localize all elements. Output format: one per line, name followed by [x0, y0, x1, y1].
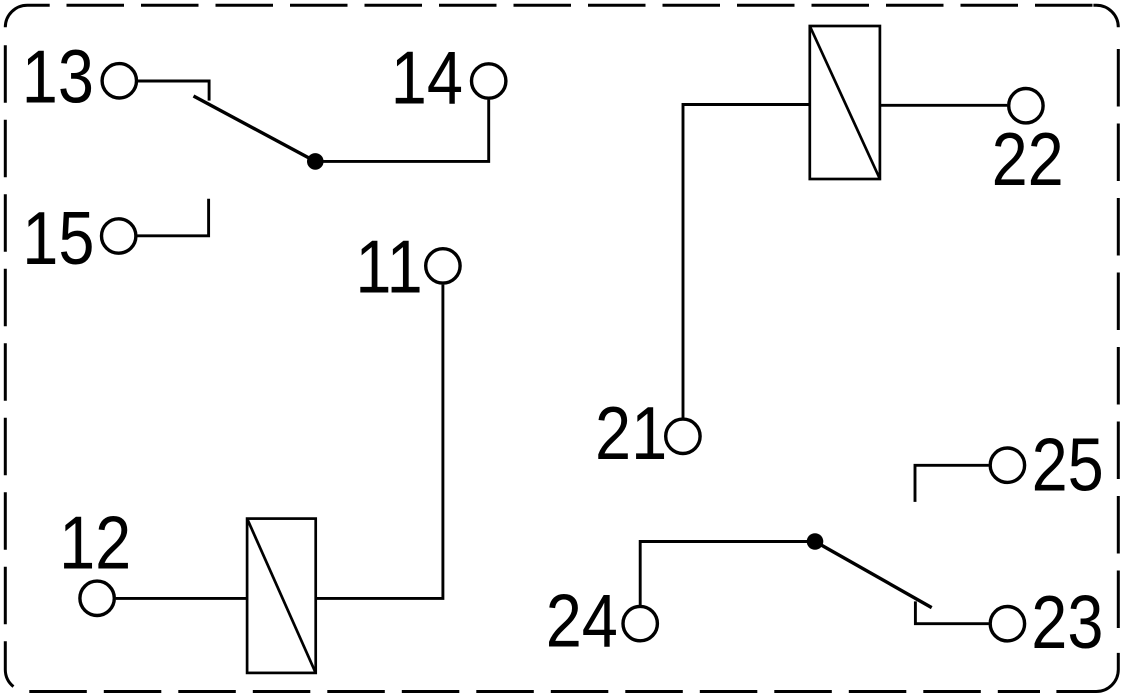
svg-text:12: 12: [59, 501, 131, 584]
svg-text:22: 22: [992, 117, 1064, 200]
wire 12 to coil K1: [116, 597, 247, 600]
wire 25 stub: [915, 465, 989, 502]
terminal 13: [102, 64, 136, 98]
svg-text:11: 11: [355, 225, 422, 308]
wire coil K2 to 21: [683, 105, 810, 418]
wire S1 dot to 14: [315, 100, 488, 162]
switch S2 arm: [815, 542, 932, 608]
border corner bottom-right: [1056, 653, 1118, 692]
dashed outline border: bottom edge: [29, 690, 1040, 693]
junction dot S1: [307, 153, 324, 170]
svg-text:14: 14: [391, 36, 463, 119]
coil K2: [810, 26, 880, 179]
terminal 15: [102, 219, 136, 253]
coil K1 diagonal: [247, 519, 316, 673]
svg-text:25: 25: [1032, 423, 1104, 506]
border corner top-right: [1093, 5, 1118, 27]
svg-text:24: 24: [546, 579, 618, 662]
terminal 24: [623, 606, 657, 640]
wire 15 stub: [137, 199, 208, 236]
terminal 11: [426, 249, 460, 283]
coil K1: [247, 519, 316, 673]
border corner top-left: [5, 5, 49, 27]
terminal 12: [80, 581, 114, 615]
switch S1 arm: [194, 96, 316, 161]
wire fixed contact to 23: [915, 601, 988, 623]
terminal 25: [990, 448, 1024, 482]
coil K2 diagonal: [810, 26, 880, 179]
terminal 22: [1009, 89, 1043, 123]
terminal 21: [666, 419, 700, 453]
border corner bottom-left: [5, 641, 13, 686]
dashed outline border: right edge: [1117, 49, 1120, 635]
wire coil K2 to 22: [880, 104, 1007, 107]
wire 24 to S2 dot: [640, 542, 815, 606]
terminal 14: [472, 64, 506, 98]
terminal 23: [990, 607, 1024, 641]
wire 13 to fixed contact: [138, 81, 209, 101]
svg-text:23: 23: [1031, 581, 1103, 664]
svg-text:13: 13: [22, 35, 94, 118]
dashed outline border: top edge: [67, 4, 1094, 7]
junction dot S2: [807, 533, 824, 550]
svg-text:21: 21: [595, 392, 667, 475]
svg-text:15: 15: [22, 196, 94, 279]
wire 11 to coil K1: [316, 285, 443, 599]
dashed outline border: left edge: [4, 45, 7, 641]
